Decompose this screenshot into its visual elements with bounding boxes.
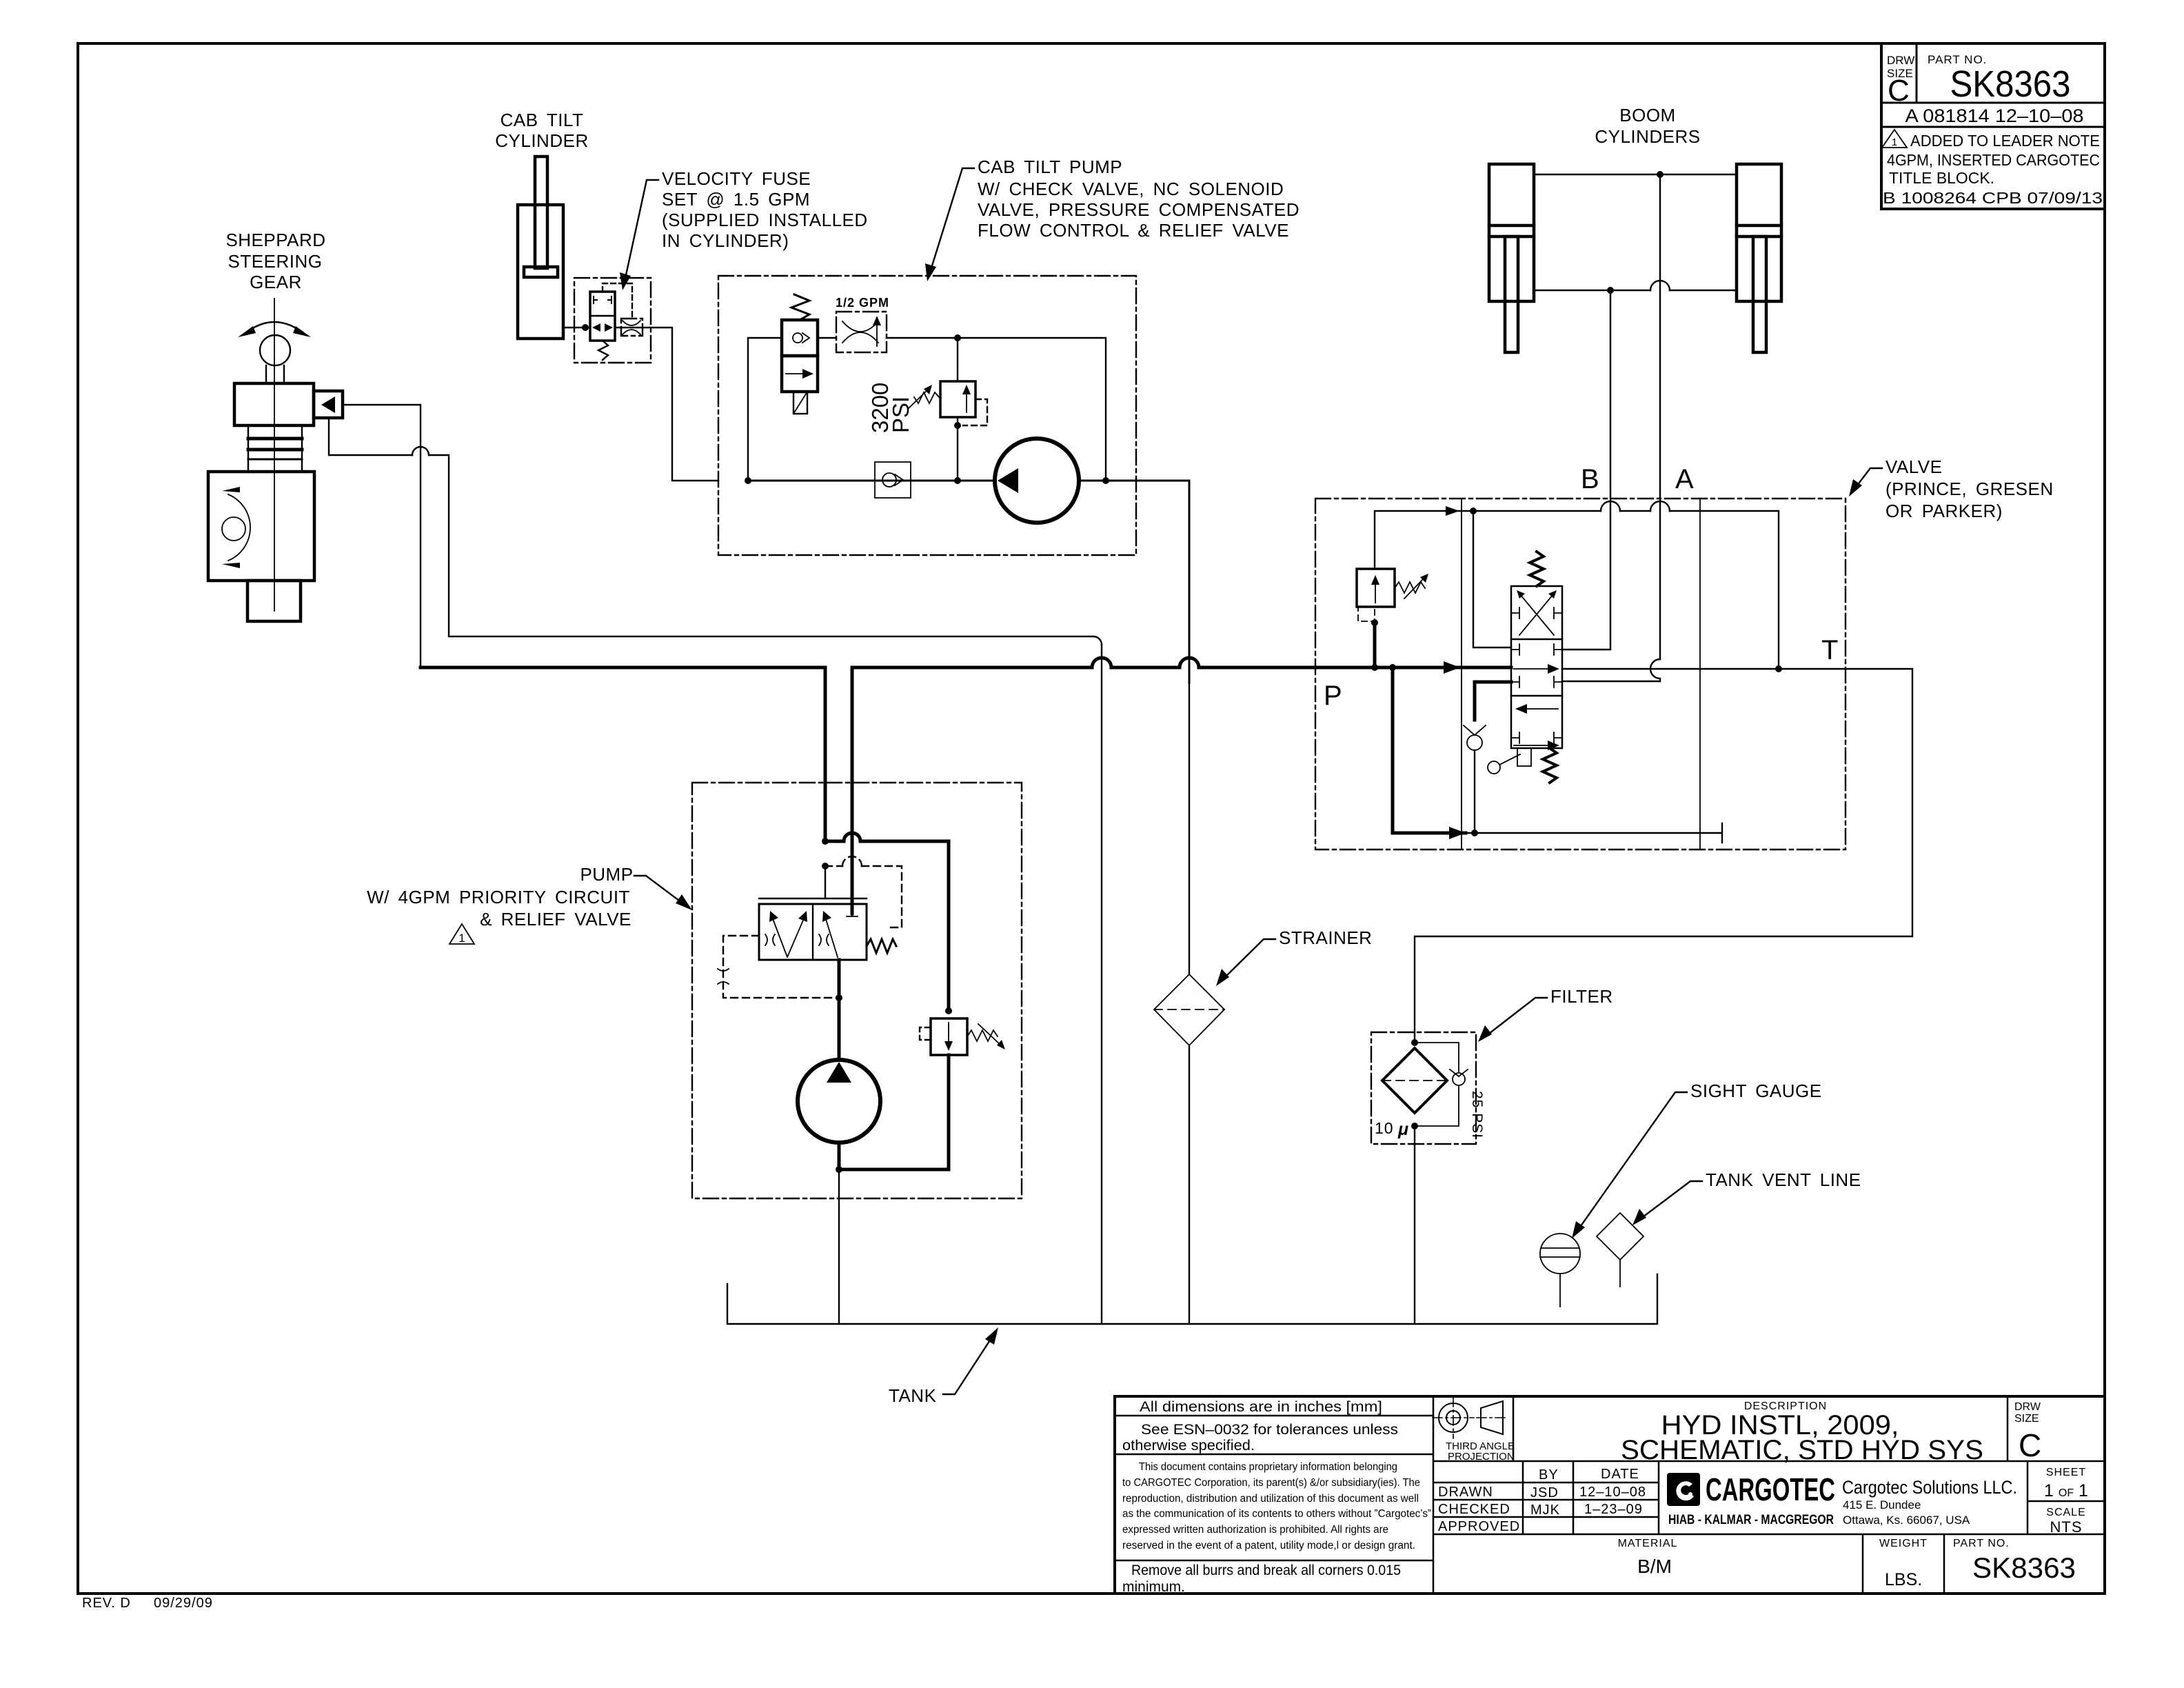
wire: rod-end header xyxy=(1534,174,1737,175)
leader to strainer xyxy=(1223,939,1275,979)
svg-text:SCALE: SCALE xyxy=(2046,1507,2085,1518)
svg-text:DATE: DATE xyxy=(1601,1467,1639,1482)
SECTION:VALVE xyxy=(1881,43,2105,209)
wire: P supply line steering side xyxy=(421,666,825,670)
cab tilt pump circle xyxy=(995,439,1079,523)
svg-text:12–10–08: 12–10–08 xyxy=(1579,1485,1646,1500)
svg-text:Cargotec Solutions LLC.: Cargotec Solutions LLC. xyxy=(1842,1477,2017,1498)
filter dash-dot enclosure xyxy=(1371,1032,1476,1144)
wire: P supply pump to valve with hops xyxy=(852,666,1315,670)
center section through arrow xyxy=(1514,668,1550,670)
float section port bars xyxy=(1511,607,1562,619)
svg-text:NTS: NTS xyxy=(2050,1518,2083,1536)
wire: priority valve to pump xyxy=(838,960,841,1060)
svg-text:CAB TILT: CAB TILT xyxy=(501,110,584,130)
tank line xyxy=(727,1274,1657,1324)
SECTION:STEERING xyxy=(495,110,867,481)
filter bypass check xyxy=(1415,1043,1459,1126)
main pump circle xyxy=(798,1060,880,1143)
svg-text:(PRINCE, GRESEN: (PRINCE, GRESEN xyxy=(1885,479,2054,499)
svg-text:P: P xyxy=(1324,681,1342,711)
svg-text:CHECKED: CHECKED xyxy=(1438,1502,1510,1517)
svg-text:DRW: DRW xyxy=(1887,54,1914,67)
flow control orifice box xyxy=(836,312,887,352)
cab tilt pump dash-dot enclosure xyxy=(718,276,1136,555)
wire: power beyond to terminator xyxy=(1466,823,1722,843)
svg-text:CYLINDER: CYLINDER xyxy=(495,130,588,151)
wire: base-end header with hop xyxy=(1534,290,1737,291)
svg-text:PART NO.: PART NO. xyxy=(1953,1538,2010,1549)
svg-text:PUMP: PUMP xyxy=(580,864,633,885)
wire: steering return to tank xyxy=(329,418,1093,636)
svg-text:SHEPPARD: SHEPPARD xyxy=(225,230,325,250)
svg-text:(SUPPLIED INSTALLED: (SUPPLIED INSTALLED xyxy=(662,210,868,230)
svg-text:SK8363: SK8363 xyxy=(1950,63,2071,105)
svg-text:WEIGHT: WEIGHT xyxy=(1879,1538,1928,1549)
wire: load check to spool xyxy=(1475,682,1511,720)
svg-text:FILTER: FILTER xyxy=(1550,986,1613,1007)
pump flow triangle xyxy=(998,468,1018,493)
svg-text:W/ CHECK VALVE, NC SOLENOI: W/ CHECK VALVE, NC SOLENOID xyxy=(978,179,1284,199)
valve relief valve xyxy=(1357,569,1395,607)
svg-text:DRAWN: DRAWN xyxy=(1438,1485,1493,1500)
right boom cylinder piston xyxy=(1737,225,1781,237)
junction fuse inlet xyxy=(582,324,589,331)
wire: T out of spool xyxy=(1562,668,1846,670)
steering rotation arc arrows xyxy=(243,322,306,335)
wire: strainer suction line xyxy=(1189,481,1191,683)
svg-text:A: A xyxy=(1675,464,1694,494)
SECTION:CABTILT xyxy=(718,157,1300,555)
left boom cylinder piston xyxy=(1489,225,1534,237)
SECTION:BOOM xyxy=(1315,456,2054,850)
wire: solenoid to orifice to pump outlet riser xyxy=(748,338,1106,481)
svg-text:MJK: MJK xyxy=(1530,1503,1560,1518)
svg-text:as the communication of it: as the communication of its contents to … xyxy=(1122,1508,1431,1520)
svg-text:This document contains prop: This document contains proprietary infor… xyxy=(1139,1461,1397,1473)
svg-text:BY: BY xyxy=(1539,1467,1559,1483)
leader to pump box xyxy=(634,876,685,905)
solenoid flow arrow xyxy=(786,373,808,374)
load check valve xyxy=(1464,725,1486,735)
wire: A line down with hop at P/T xyxy=(1659,174,1661,659)
wire: T return to filter xyxy=(1415,669,1912,1043)
svg-text:CYLINDERS: CYLINDERS xyxy=(1595,126,1700,147)
svg-text:Remove all burrs and break: Remove all burrs and break all corners 0… xyxy=(1131,1563,1401,1578)
relief pilot dash xyxy=(920,1027,931,1040)
svg-text:C: C xyxy=(2019,1427,2041,1463)
svg-text:expressed written authorizat: expressed written authorization is prohi… xyxy=(1122,1524,1388,1536)
wire: priority internal to relief xyxy=(825,841,949,1011)
check valve at steering inlet xyxy=(314,391,343,418)
spool bottom spring xyxy=(1543,748,1557,783)
wire: B line down xyxy=(1562,290,1610,650)
wire: pump suction and relief return xyxy=(839,1055,949,1169)
leader to filter xyxy=(1486,998,1547,1036)
strainer xyxy=(1154,974,1224,1045)
center section port bars xyxy=(1511,644,1562,655)
SECTION:MAINPUMP xyxy=(329,405,1912,1406)
leader to valve box xyxy=(1854,468,1882,489)
svg-text:otherwise specified.: otherwise specified. xyxy=(1122,1438,1255,1454)
cargotec logo emblem xyxy=(1667,1473,1700,1506)
valve relief pilot dash xyxy=(1358,607,1375,621)
svg-text:T: T xyxy=(1821,635,1838,665)
svg-text:reserved in the event of: reserved in the event of a patent, utili… xyxy=(1122,1540,1415,1551)
svg-text:LBS.: LBS. xyxy=(1885,1570,1922,1589)
wire: gallery branch to spool xyxy=(1473,511,1511,647)
priority flow divider valve xyxy=(759,898,867,899)
svg-text:CARGOTEC: CARGOTEC xyxy=(1706,1471,1835,1507)
svg-text:VELOCITY FUSE: VELOCITY FUSE xyxy=(662,168,811,189)
wire: priority valve feed risers xyxy=(825,866,826,898)
svg-text:1: 1 xyxy=(458,932,465,945)
spool lever xyxy=(1517,748,1531,766)
main spool body xyxy=(1511,586,1562,748)
svg-text:VALVE, PRESSURE COMPENSATED: VALVE, PRESSURE COMPENSATED xyxy=(978,199,1300,220)
svg-text:CAB TILT PUMP: CAB TILT PUMP xyxy=(978,157,1122,177)
svg-text:ADDED TO LEADER NOTE: ADDED TO LEADER NOTE xyxy=(1910,132,2100,150)
svg-text:SK8363: SK8363 xyxy=(1972,1551,2076,1584)
wire: steering check valve to P line xyxy=(343,405,421,667)
svg-text:B: B xyxy=(1581,464,1599,494)
velocity fuse spring xyxy=(598,341,608,360)
steering gear main body xyxy=(208,472,314,581)
svg-text:MATERIAL: MATERIAL xyxy=(1618,1538,1678,1549)
steering gear tail box xyxy=(247,581,301,621)
svg-text:SIZE: SIZE xyxy=(2014,1413,2039,1425)
svg-text:IN CYLINDER): IN CYLINDER) xyxy=(662,230,789,251)
svg-text:REV. D: REV. D xyxy=(82,1596,131,1611)
steering column xyxy=(266,365,284,383)
svg-text:415 E. Dundee: 415 E. Dundee xyxy=(1843,1498,1921,1511)
right boom cylinder rod xyxy=(1753,237,1766,352)
svg-text:OR PARKER): OR PARKER) xyxy=(1885,501,2003,521)
svg-text:STRAINER: STRAINER xyxy=(1279,927,1372,948)
wire: filter to tank xyxy=(1414,1126,1415,1324)
cab pump relief valve xyxy=(957,338,958,381)
svg-text:W/ 4GPM PRIORITY CIRCUIT: W/ 4GPM PRIORITY CIRCUIT xyxy=(367,887,630,907)
svg-text:JSD: JSD xyxy=(1530,1485,1559,1500)
steering gear centerline xyxy=(274,299,275,611)
priority valve right section xyxy=(847,904,858,916)
steering gear neck with port bars xyxy=(248,425,302,472)
filter element xyxy=(1382,1048,1447,1113)
solenoid actuator tail xyxy=(793,392,807,414)
priority valve left section arrows xyxy=(772,917,805,957)
leader to tank vent xyxy=(1640,1181,1702,1219)
wire: P carryover down xyxy=(1393,667,1466,833)
priority valve spring xyxy=(867,939,896,953)
sight gauge xyxy=(1540,1234,1580,1274)
steering wheel circle xyxy=(260,335,290,365)
leader to sight gauge xyxy=(1577,1092,1687,1231)
velocity fuse dashed enclosure xyxy=(574,278,651,363)
SECTION:CABPUMP xyxy=(367,667,1022,1324)
cab tilt cylinder rod xyxy=(535,157,547,268)
left boom cylinder rod xyxy=(1505,237,1518,352)
svg-text:& RELIEF VALVE: & RELIEF VALVE xyxy=(480,909,631,930)
svg-text:A 081814 12–10–08: A 081814 12–10–08 xyxy=(1905,105,2084,126)
svg-text:B 1008264 CPB 07/09/13: B 1008264 CPB 07/09/13 xyxy=(1883,189,2103,207)
svg-text:VALVE: VALVE xyxy=(1885,456,1942,477)
svg-text:TANK VENT LINE: TANK VENT LINE xyxy=(1706,1169,1861,1190)
svg-text:1–23–09: 1–23–09 xyxy=(1584,1502,1643,1517)
valve section dividers xyxy=(1462,499,1700,850)
lower section arrows xyxy=(1524,708,1558,710)
junction dots xyxy=(745,477,751,484)
leader to cab tilt pump box xyxy=(930,168,974,272)
NC solenoid valve body xyxy=(782,320,818,356)
left boom cylinder body xyxy=(1489,164,1534,301)
cab tilt cylinder piston xyxy=(524,267,558,277)
svg-text:GEAR: GEAR xyxy=(250,272,302,292)
inlet check valve xyxy=(875,462,911,498)
svg-text:1: 1 xyxy=(1892,137,1897,148)
title block frame xyxy=(1115,1396,2105,1594)
svg-text:All dimensions are in inch: All dimensions are in inches [mm] xyxy=(1140,1399,1382,1415)
lower section port bars xyxy=(1511,732,1562,743)
velocity fuse valve body xyxy=(590,292,615,341)
priority valve left pilot dash with orifice xyxy=(723,936,839,998)
steering gear inner circle xyxy=(222,517,245,541)
third angle projection symbol xyxy=(1439,1403,1468,1432)
svg-text:to CARGOTEC Corporation, it: to CARGOTEC Corporation, its parent(s) &… xyxy=(1122,1477,1420,1489)
svg-text:APPROVED: APPROVED xyxy=(1438,1519,1520,1534)
relief spring adjustable xyxy=(967,1030,998,1041)
wire: P into spool xyxy=(1315,666,1511,670)
svg-text:SET @ 1.5 GPM: SET @ 1.5 GPM xyxy=(662,189,810,210)
SECTION:REVBLOCK xyxy=(1115,1396,2105,1595)
tank vent line symbol xyxy=(1597,1213,1644,1260)
svg-text:Ottawa, Ks. 66067, USA: Ottawa, Ks. 66067, USA xyxy=(1843,1514,1970,1527)
cab tilt cylinder body xyxy=(518,205,563,339)
relief pilot dash xyxy=(963,399,987,425)
main relief valve xyxy=(931,1018,967,1055)
pump flow triangle up xyxy=(827,1062,851,1083)
wire: main suction/delivery line xyxy=(748,480,1189,482)
solenoid check symbol xyxy=(793,333,802,343)
wire: cylinder to fuse to cab tilt pump xyxy=(563,328,718,481)
wire: suction to tank xyxy=(838,1169,840,1324)
right boom cylinder body xyxy=(1737,164,1781,301)
revision note triangle 1 xyxy=(1882,130,1907,148)
valve assembly dash-dot enclosure xyxy=(1315,499,1846,850)
velocity fuse flow arrows xyxy=(592,323,600,332)
revision triangle 1 xyxy=(449,924,474,944)
pilot dash to priority valve spring end xyxy=(825,866,902,927)
leader to velocity fuse xyxy=(625,180,658,281)
svg-text:See ESN–0032 for tolerances: See ESN–0032 for tolerances unless xyxy=(1141,1422,1398,1438)
svg-text:STEERING: STEERING xyxy=(228,251,323,272)
svg-text:09/29/09: 09/29/09 xyxy=(154,1596,213,1611)
wire: relief top to tank gallery xyxy=(1375,511,1779,669)
spool float section cross arrows xyxy=(1519,594,1554,635)
valve relief spring adjustable xyxy=(1395,582,1425,593)
main pump dash-dot enclosure xyxy=(692,783,1022,1198)
svg-text:DRW: DRW xyxy=(2014,1401,2041,1413)
wire: steering supply riser xyxy=(824,667,827,841)
wire: relief to P xyxy=(1373,623,1377,667)
velocity fuse orifice box xyxy=(621,319,643,336)
steering gear top box xyxy=(234,383,314,425)
svg-text:HIAB - KALMAR - MACGREGOR: HIAB - KALMAR - MACGREGOR xyxy=(1668,1513,1834,1527)
svg-text:μ: μ xyxy=(1397,1120,1408,1139)
NC solenoid valve spring xyxy=(791,294,809,320)
svg-text:FLOW CONTROL & RELIEF VALV: FLOW CONTROL & RELIEF VALVE xyxy=(978,220,1289,241)
spool top spring xyxy=(1530,552,1544,586)
svg-text:4GPM, INSERTED CARGOTEC: 4GPM, INSERTED CARGOTEC xyxy=(1887,151,2100,169)
velocity fuse pilot dash xyxy=(603,283,632,319)
leader to tank xyxy=(943,1335,993,1394)
svg-text:C: C xyxy=(1888,74,1910,108)
svg-text:minimum.: minimum. xyxy=(1122,1579,1185,1595)
svg-text:1/2 GPM: 1/2 GPM xyxy=(836,296,889,310)
SECTION:WIRES xyxy=(1489,105,1781,681)
title block grid xyxy=(1115,1396,2105,1594)
svg-text:B/M: B/M xyxy=(1637,1556,1672,1577)
svg-text:SHEET: SHEET xyxy=(2046,1467,2086,1478)
velocity fuse top port bars xyxy=(594,297,611,303)
svg-text:SIGHT GAUGE: SIGHT GAUGE xyxy=(1690,1081,1822,1101)
relief spring adjustable xyxy=(914,392,940,403)
svg-text:PSI: PSI xyxy=(888,396,913,433)
revision block frame xyxy=(1881,43,2105,209)
svg-text:reproduction, distribution a: reproduction, distribution and utilizati… xyxy=(1122,1493,1419,1505)
svg-text:TITLE BLOCK.: TITLE BLOCK. xyxy=(1889,169,1994,187)
svg-text:BOOM: BOOM xyxy=(1619,105,1675,125)
steering gear rotation arc xyxy=(228,494,250,561)
svg-text:25 PSI: 25 PSI xyxy=(1469,1091,1485,1138)
svg-text:10: 10 xyxy=(1375,1119,1394,1137)
svg-text:TANK: TANK xyxy=(889,1385,937,1406)
svg-text:PROJECTION: PROJECTION xyxy=(1448,1451,1515,1463)
svg-text:SCHEMATIC, STD HYD SYS: SCHEMATIC, STD HYD SYS xyxy=(1621,1435,1983,1465)
